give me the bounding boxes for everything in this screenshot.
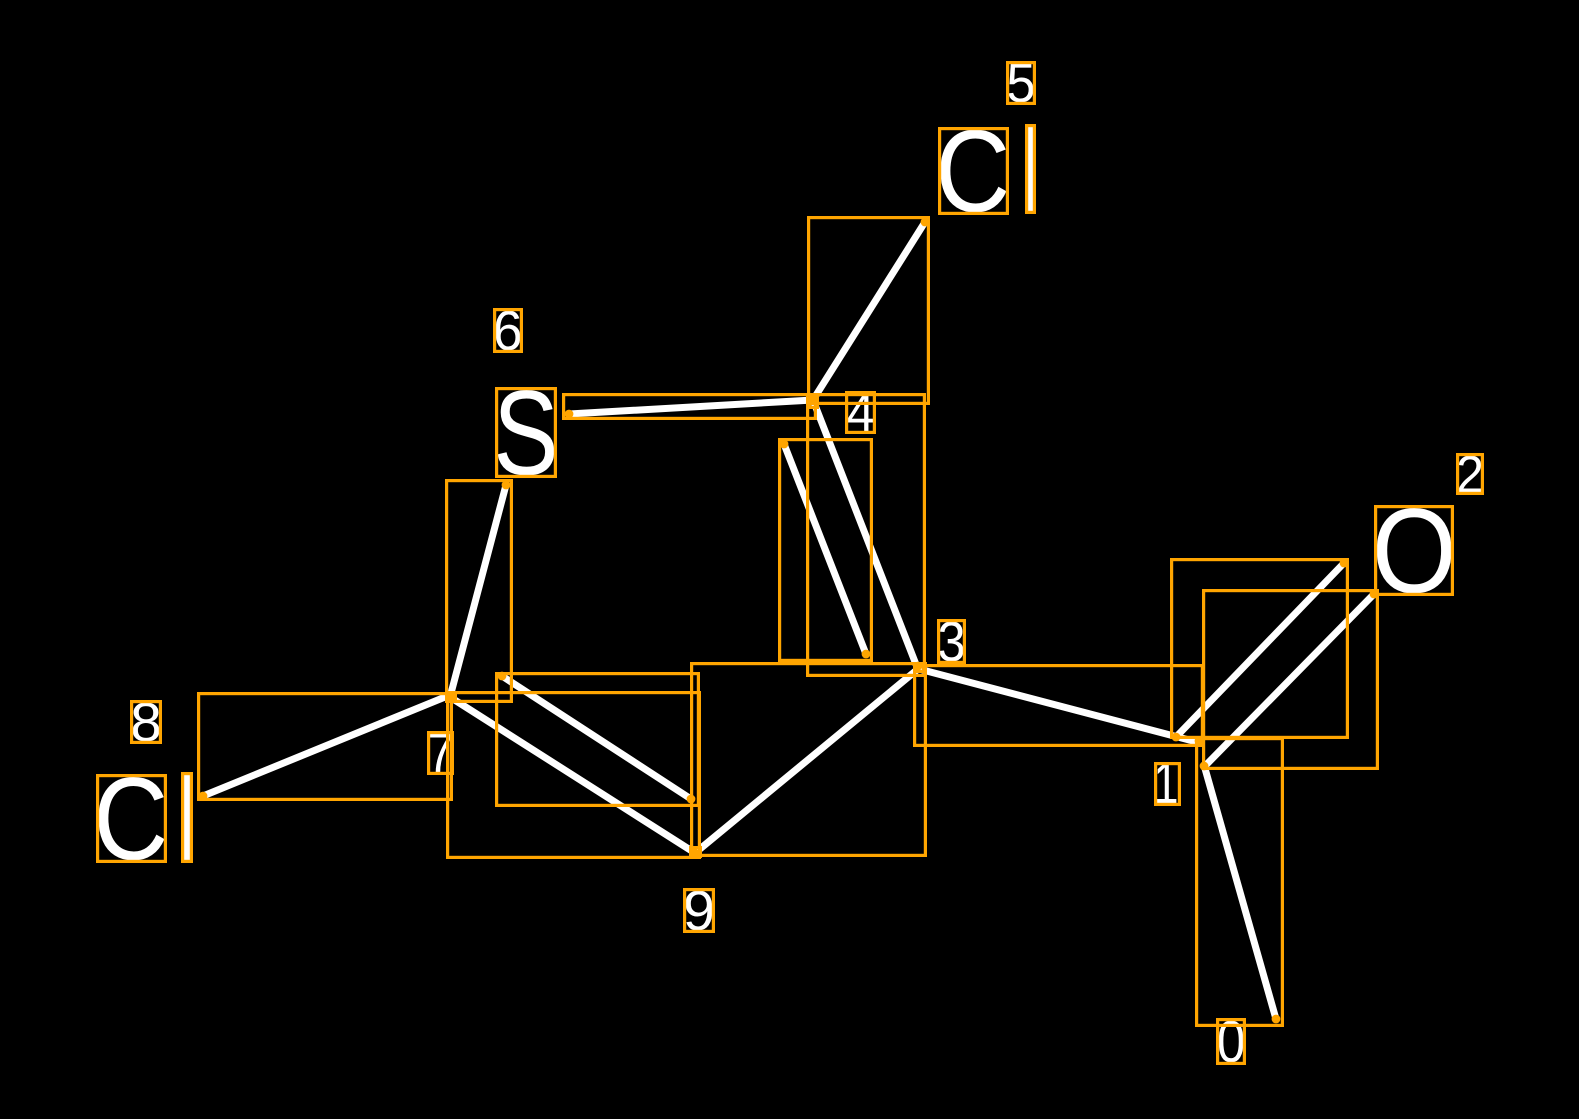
svg-text:C: C [93,752,168,885]
dot C1=O2 line a lower end [1172,733,1181,742]
bond C7=C9 inner line [502,676,691,799]
bbox index label 9 [685,890,714,932]
dot atom C4 [809,396,818,405]
dot atom C1 cluster [1195,737,1204,746]
bbox bond C7-Cl8 [199,694,452,800]
dot S6 bond end (S-C4) [565,410,574,419]
bbox index label 1 [1156,764,1180,805]
bbox bond C1=O2 line b [1204,591,1378,769]
bbox bond C1=O2 line a [1172,560,1348,738]
bbox glyph C of Cl5 [940,129,1008,214]
bbox atom C1 [1197,738,1204,746]
dot C1=O2 line b upper end [1370,590,1379,599]
bbox index label 2 [1458,455,1483,494]
bond C4-Cl5 [813,222,925,400]
dot C1=O2 line a upper end [1340,559,1349,568]
bond C7-Cl8 [203,695,450,796]
bbox glyph S of S6 [497,389,556,477]
bond C4=C3 inner line [784,444,866,654]
svg-text:O: O [1372,483,1457,618]
bbox glyph C of Cl8 [98,776,166,862]
dot Cl8 attach [199,792,208,801]
bbox index label 5 [1008,63,1035,104]
bbox glyph l of Cl5 [1027,126,1035,213]
bond C1=O2 line a [1176,563,1344,737]
bond S6-C7 [450,485,506,697]
bbox bond C3-C9 [692,664,926,856]
bbox glyph l of Cl8 [183,774,192,862]
dot Cl5 attach [921,218,930,227]
dot atom C3 [914,662,923,671]
bbox atom C4 [810,397,818,408]
bbox atom C3 [915,665,924,672]
bond C3-C1 [919,669,1193,741]
bbox glyph O of O2 [1376,507,1453,595]
bbox bond C7=C9 inner [497,674,699,806]
bond C4=C3 main line [813,400,917,667]
dot atom C7 [446,692,455,701]
dot C1=O2 line b lower end [1200,762,1209,771]
bbox index label 8 [132,702,161,743]
bbox bond C3-C1 [915,666,1203,746]
dot inner line bottom (C7=C9) [687,795,696,804]
bbox bond C7=C9 main [448,693,700,858]
bbox bond C4-Cl5 [809,218,929,404]
bbox bond S6-C7 [447,481,512,702]
dot S6 bond end (S-C7) [502,481,511,490]
bbox atom C7 [447,694,456,700]
bbox bond C4=C3 main [808,395,925,676]
bbox index label 4 [847,393,875,433]
dot inner line bottom (C4=C3) [862,650,871,659]
bbox index label 7 [429,733,453,774]
bbox index label 0 [1218,1020,1245,1064]
bond C3-C9 [695,669,918,853]
dot atom C9 [691,849,700,858]
bbox bond C4=C3 inner [780,440,872,661]
bbox atom C9 [691,848,701,857]
bbox bond S6-C4 [564,395,816,419]
bond C7=C9 main line [450,697,695,853]
dot inner line top (C4=C3) [780,440,789,449]
bond S6-C4 [569,400,813,414]
dot atom C0 [1272,1015,1281,1024]
bond C1-C0 [1204,765,1276,1019]
bbox bond C1-C0 [1197,739,1283,1026]
dot inner line top (C7=C9) [498,672,507,681]
bond C1=O2 line b [1204,594,1374,767]
bbox index label 3 [939,621,965,663]
bbox index label 6 [495,310,522,352]
svg-text:C: C [935,107,1010,237]
